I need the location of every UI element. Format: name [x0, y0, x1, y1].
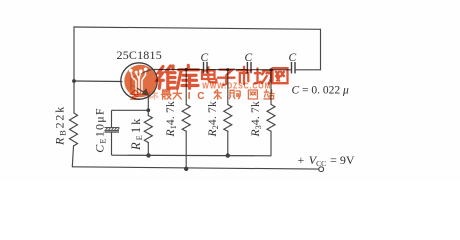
- wire: collector row segment 2: [207, 69, 247, 71]
- svg-text:RE1k: RE1k: [129, 117, 144, 151]
- node RE bottom junction dot: [146, 153, 150, 157]
- node: base junction dot: [72, 79, 76, 83]
- node R1 top dot: [185, 68, 188, 71]
- resistor RE 1k: [144, 110, 152, 155]
- watermark logo circle: [124, 65, 156, 97]
- wire: top feedback line: [74, 27, 321, 29]
- svg-text:R14. 7k: R14. 7k: [165, 101, 178, 137]
- watermark text dianzishichangwang: [202, 67, 288, 85]
- watermark: [124, 65, 287, 102]
- wire: left vertical feedback line: [73, 27, 75, 113]
- watermark text quanqiuzuida: [130, 90, 274, 100]
- svg-text:C: C: [289, 52, 297, 64]
- resistor R2 4.7k: [224, 70, 232, 156]
- wire: collector row segment 3: [251, 69, 292, 71]
- svg-text:I: I: [188, 91, 191, 102]
- svg-text:R24. 7k: R24. 7k: [207, 101, 220, 137]
- wire: collector row segment 1: [150, 69, 204, 71]
- svg-text:RB22k: RB22k: [53, 105, 68, 146]
- node R3 top dot: [269, 68, 272, 71]
- svg-text:25C1815: 25C1815: [117, 48, 162, 62]
- wire: base wire: [74, 80, 122, 83]
- node: emitter junction dot: [146, 108, 150, 112]
- svg-text:C: C: [245, 52, 253, 64]
- wire: collector row segment 4: [295, 69, 321, 71]
- svg-text:C: C: [197, 91, 204, 102]
- wire: bypass loop top: [112, 109, 149, 111]
- resistor R1 4.7k: [182, 70, 190, 169]
- capacitor C3: [292, 62, 296, 73]
- node R1 bottom junction dot: [184, 167, 188, 171]
- svg-text:CE10μF: CE10μF: [93, 107, 108, 153]
- svg-text:+ VCC = 9V: + VCC = 9V: [298, 153, 355, 168]
- wire: bottom supply bus: [72, 167, 318, 169]
- svg-text:C: C: [201, 52, 209, 64]
- capacitor C2: [247, 62, 251, 73]
- node R2 bottom junction dot: [226, 153, 230, 157]
- watermark text weiku big: [157, 65, 198, 88]
- node R2 top dot: [226, 68, 229, 71]
- svg-text:C = 0. 022 μ: C = 0. 022 μ: [292, 85, 350, 97]
- svg-text:R34. 7k: R34. 7k: [250, 101, 263, 137]
- resistor RB 22k: [70, 113, 78, 167]
- terminal: Vcc open circle: [319, 167, 324, 172]
- wire: emitter lead: [147, 95, 149, 111]
- svg-text:WWW.DZSC.COM: WWW.DZSC.COM: [202, 82, 271, 91]
- resistor R3 4.7k: [267, 70, 275, 156]
- wire: emitter return line: [112, 154, 272, 157]
- wire: right vertical line: [320, 29, 322, 70]
- transistor Q1 emitter arrow overlay: [137, 70, 151, 95]
- capacitor C1: [204, 62, 208, 73]
- transistor Q1 25C1815: [121, 63, 157, 99]
- capacitor CE 10uF electrolytic: [105, 110, 120, 155]
